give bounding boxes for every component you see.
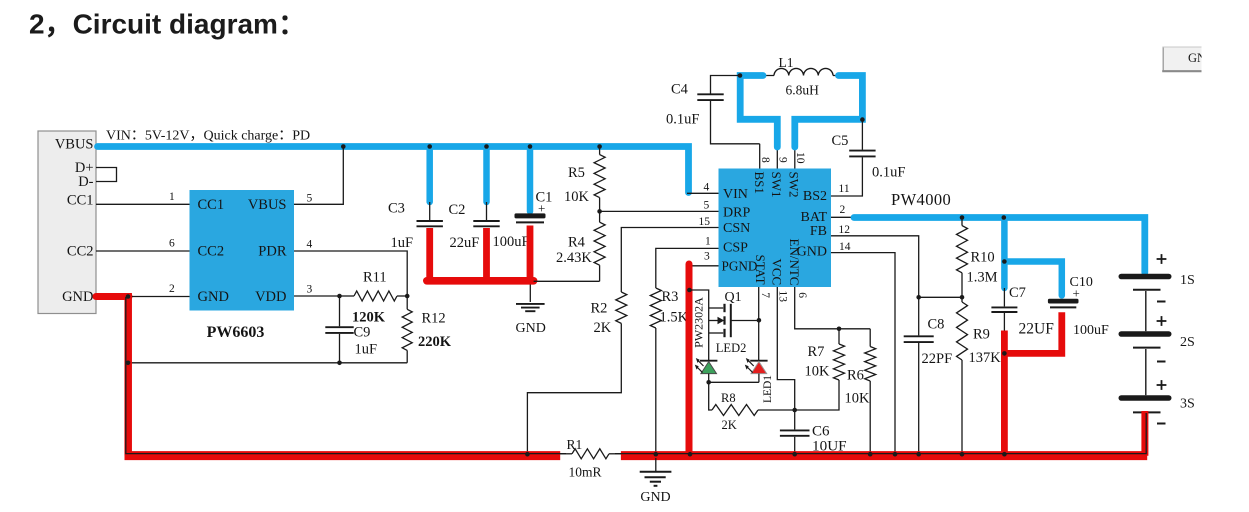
pin number 3: [704, 251, 710, 263]
svg-text:5: 5: [307, 192, 313, 204]
IC U1 PW4000: [719, 169, 832, 288]
junction C7/C10 blue: [1002, 259, 1007, 264]
wire red C7 bottom to bus: [1001, 331, 1008, 456]
GND bus red left vertical: [124, 293, 132, 456]
wire STAT pin 7 down to LED1: [758, 287, 760, 361]
svg-text:14: 14: [839, 241, 851, 253]
resistor R4 2.43K: [556, 211, 605, 281]
svg-text:1S: 1S: [1180, 273, 1195, 288]
pin number 13 vertical: [776, 291, 788, 303]
GND wire black overlay left: [126, 297, 566, 454]
junction R11/R12/PDR node: [405, 294, 410, 299]
svg-text:EN/NTC: EN/NTC: [787, 239, 802, 286]
junction C7 red on bus: [1002, 452, 1007, 457]
svg-text:DRP: DRP: [723, 205, 750, 220]
wire FB pin 12 to divider: [831, 236, 919, 297]
wire 1S to 2S: [1145, 291, 1147, 331]
wire red below C2: [483, 228, 490, 278]
junction R2 on bus: [525, 452, 530, 457]
svg-text:CC1: CC1: [198, 197, 225, 213]
resistor R7 10K: [795, 329, 845, 410]
IC U2 PW6603: [190, 190, 295, 311]
wire DRP pin 5: [600, 210, 719, 212]
junction C8 on bus: [916, 452, 921, 457]
label LED1 vertical: [762, 375, 774, 403]
svg-text:2: 2: [840, 204, 846, 216]
svg-text:2K: 2K: [594, 320, 612, 336]
svg-text:2S: 2S: [1180, 335, 1195, 350]
svg-text:VIN：5V-12V，Quick charge：PD: VIN：5V-12V，Quick charge：PD: [106, 129, 310, 144]
label LED2: [716, 341, 747, 355]
svg-text:10mR: 10mR: [569, 465, 602, 480]
svg-text:PW2302A: PW2302A: [692, 297, 706, 348]
capacitor C9 1uF: [325, 296, 377, 363]
resistor R6 10K: [845, 329, 876, 454]
pin stubs top BS1/SW1/SW2: [759, 144, 761, 169]
junction FB node: [960, 295, 965, 300]
pin number 2: [840, 204, 846, 216]
pin number 5: [307, 192, 313, 204]
svg-text:VBUS: VBUS: [55, 137, 94, 153]
junction C7 on BAT rail: [1002, 215, 1007, 220]
pin number 10 vertical: [794, 152, 806, 164]
junction R10 on BAT rail: [960, 215, 965, 220]
wire red C7 to C10 bottom: [1004, 312, 1061, 353]
svg-text:BS1: BS1: [752, 172, 767, 194]
capacitor C10 100uF polarized: [1048, 275, 1109, 338]
svg-text:SW1: SW1: [769, 172, 784, 198]
svg-text:6: 6: [169, 238, 175, 250]
svg-text:R4: R4: [568, 235, 586, 251]
resistor R8 2K: [709, 382, 795, 432]
junction LED2/R8: [706, 380, 711, 385]
svg-text:137K: 137K: [969, 350, 1002, 366]
svg-text:12: 12: [839, 224, 851, 236]
capacitor C2 22uF: [449, 149, 500, 251]
svg-text:100uF: 100uF: [1073, 323, 1109, 338]
transistor Q1 PW2302A: [709, 290, 759, 337]
wire PW6603 pin 5 VBUS up to rail: [294, 147, 343, 205]
svg-text:4: 4: [307, 239, 313, 251]
junction C5 tap on blue: [860, 117, 865, 122]
battery cell 1S: [1119, 254, 1195, 301]
svg-text:VBUS: VBUS: [248, 197, 287, 213]
capacitor C6 10UF: [780, 410, 847, 455]
svg-text:7: 7: [759, 292, 771, 298]
svg-text:R12: R12: [422, 311, 446, 327]
pin number 14: [839, 241, 851, 253]
svg-text:1.5K: 1.5K: [660, 310, 689, 326]
cropped tooltip box top-right with GND text: [1162, 47, 1215, 72]
svg-text:CC2: CC2: [198, 244, 225, 260]
capacitor C1 100uF polarized: [493, 149, 553, 250]
pin number 2: [169, 283, 175, 295]
junction VBUS/pin5: [341, 144, 346, 149]
svg-text:8: 8: [759, 157, 771, 163]
junction DRP/R5/R4: [597, 209, 602, 214]
wire blue to C10: [1004, 262, 1061, 296]
wire GND black to PW6603 pin 2: [127, 296, 190, 298]
svg-text:PDR: PDR: [258, 244, 287, 260]
junction PGND on bus: [688, 452, 693, 457]
svg-text:1: 1: [169, 191, 175, 203]
svg-text:2K: 2K: [722, 418, 737, 432]
wire FB node across: [919, 296, 962, 298]
svg-text:STAT: STAT: [753, 255, 768, 285]
wire CSN pin 15 to R2: [621, 228, 718, 293]
svg-text:VDD: VDD: [255, 289, 286, 305]
svg-text:0.1uF: 0.1uF: [666, 112, 699, 128]
svg-text:CSP: CSP: [723, 241, 748, 256]
battery cell 3S: [1119, 380, 1195, 423]
pin number 6: [169, 238, 175, 250]
junction PGND/Q1: [687, 288, 692, 293]
capacitor C3 1uF: [388, 149, 443, 251]
wire BAT pin 2 stub: [831, 216, 856, 218]
svg-text:6: 6: [796, 292, 808, 298]
wire R2 bottom to GND bus: [527, 323, 621, 453]
svg-text:100uF: 100uF: [493, 234, 530, 250]
svg-text:R3: R3: [662, 289, 679, 305]
wire CSP pin 1 to R3: [656, 248, 719, 288]
GND bus red bottom right segment: [621, 451, 1147, 460]
wire bottom node C9/R12 to GND net: [128, 362, 407, 364]
svg-text:SW2: SW2: [787, 172, 802, 198]
pin number 4: [307, 239, 313, 251]
svg-text:CSN: CSN: [723, 221, 750, 236]
svg-text:11: 11: [839, 183, 850, 195]
pin number 8 vertical: [759, 157, 771, 163]
pin number 7 vertical: [759, 292, 771, 298]
svg-text:GND: GND: [1188, 51, 1215, 65]
svg-text:Q1: Q1: [725, 290, 742, 305]
svg-text:R6: R6: [847, 368, 864, 384]
resistor R5 10K: [564, 147, 605, 212]
junction GND symbol on bus: [654, 452, 659, 457]
svg-text:C7: C7: [1009, 285, 1026, 301]
pin number 5: [704, 200, 710, 212]
junction red C7/C10: [1002, 351, 1007, 356]
svg-text:120K: 120K: [352, 310, 386, 326]
GND bus red bottom left segment: [125, 451, 561, 460]
note label VIN 5V-12V quick charge PD: [106, 129, 310, 144]
svg-text:PW4000: PW4000: [891, 190, 951, 209]
svg-text:R1: R1: [567, 437, 583, 452]
LED1 red: [745, 358, 768, 382]
svg-text:VCC: VCC: [770, 259, 785, 286]
wire PGND red down to bus: [686, 264, 693, 456]
pin number 6 vertical: [796, 292, 808, 298]
pin number 3: [307, 284, 313, 296]
junction VDD node: [337, 294, 342, 299]
svg-text:+: +: [538, 201, 545, 216]
junction C8 top: [916, 295, 921, 300]
svg-text:C3: C3: [388, 201, 405, 217]
junction R7 top: [837, 327, 842, 332]
wire blue SW2 to L1 right: [795, 76, 863, 148]
svg-text:5: 5: [704, 200, 710, 212]
svg-text:9: 9: [777, 157, 789, 163]
wire GND from connector (red): [96, 293, 129, 300]
pin number 1: [705, 236, 711, 248]
svg-text:2，Circuit diagram：: 2，Circuit diagram：: [29, 9, 306, 40]
svg-text:CC2: CC2: [67, 244, 94, 260]
svg-text:C8: C8: [928, 317, 945, 333]
capacitor C7 22UF: [991, 285, 1054, 338]
svg-text:1uF: 1uF: [391, 235, 414, 251]
capacitor C8 22PF: [904, 297, 952, 454]
wire D+/D- loop stub: [96, 168, 117, 182]
LED2 green: [695, 358, 718, 382]
svg-text:GND: GND: [198, 289, 229, 305]
junction pin14 on bus: [893, 452, 898, 457]
capacitor C5 0.1uF: [831, 120, 905, 196]
pin number 9 vertical: [777, 157, 789, 163]
pin number 4: [704, 181, 710, 193]
svg-text:13: 13: [776, 291, 788, 303]
svg-text:R11: R11: [363, 270, 387, 286]
svg-text:R9: R9: [973, 327, 990, 343]
wire PW6603 pin 3 VDD: [294, 295, 340, 297]
wire GND pin 14 down to bus: [831, 253, 895, 454]
label PW2302A vertical: [692, 297, 706, 348]
wire R3 bottom to GND bus: [655, 328, 657, 454]
junction C9 bottom: [337, 361, 342, 366]
svg-text:22uF: 22uF: [450, 235, 480, 251]
svg-text:15: 15: [699, 216, 711, 228]
svg-text:BS2: BS2: [803, 189, 827, 204]
svg-text:+: +: [1073, 286, 1080, 301]
svg-text:2: 2: [169, 283, 175, 295]
wire 2S to 3S: [1145, 349, 1147, 395]
USB input connector J1: [38, 131, 96, 314]
inductor L1 6.8uH: [740, 55, 861, 98]
wire red below C3: [426, 228, 433, 278]
svg-text:GND: GND: [516, 321, 546, 336]
svg-text:C9: C9: [354, 325, 371, 341]
wire blue C7 branch: [1001, 219, 1008, 288]
junction C3 on rail: [427, 144, 432, 149]
svg-text:LED1: LED1: [762, 375, 774, 403]
ground symbol below C1: [516, 285, 546, 336]
resistor R12 220K: [402, 296, 452, 363]
svg-text:R10: R10: [971, 250, 995, 266]
wire blue SW1 to L1 left: [740, 76, 777, 148]
svg-text:BAT: BAT: [801, 210, 828, 225]
capacitor C4 0.1uF: [666, 76, 760, 144]
red ground bar under C1-C3: [427, 277, 534, 285]
svg-text:R7: R7: [808, 344, 825, 360]
svg-text:1uF: 1uF: [355, 342, 378, 358]
resistor R1 10mR: [560, 437, 621, 480]
svg-text:FB: FB: [810, 224, 827, 239]
label PW6603: [207, 324, 265, 341]
BAT rail (blue) to battery: [854, 218, 1145, 273]
junction R9 on bus: [960, 452, 965, 457]
svg-text:10K: 10K: [845, 391, 871, 407]
svg-text:C5: C5: [832, 133, 849, 149]
wire CC2 to PW6603 pin 6: [96, 250, 190, 252]
wire red below C1: [527, 226, 534, 279]
pin number 12: [839, 224, 851, 236]
svg-text:10K: 10K: [564, 189, 590, 205]
wire EN/NTC pin 6 to R7/R6: [795, 287, 871, 329]
svg-text:3: 3: [704, 251, 710, 263]
svg-text:4: 4: [704, 181, 710, 193]
junction gate/STAT: [757, 318, 762, 323]
ground symbol main GND: [640, 458, 672, 505]
pin number 1: [169, 191, 175, 203]
svg-text:0.1uF: 0.1uF: [872, 165, 905, 181]
svg-text:C2: C2: [449, 202, 466, 218]
junction C6 on bus: [792, 452, 797, 457]
wire PGND pin 3 stub: [689, 265, 719, 267]
junction R5 on rail: [597, 144, 602, 149]
resistor R10 1.3M: [957, 219, 998, 297]
svg-text:GND: GND: [640, 490, 670, 505]
wire Q1 source rail: [689, 290, 708, 361]
svg-text:1: 1: [705, 236, 711, 248]
svg-text:3: 3: [307, 284, 313, 296]
resistor R3 1.5K: [650, 288, 688, 328]
svg-text:R5: R5: [568, 165, 585, 181]
svg-text:C4: C4: [671, 82, 689, 98]
wire LED2/LED1 cathode join: [709, 381, 759, 383]
svg-text:6.8uH: 6.8uH: [786, 83, 820, 98]
svg-text:2.43K: 2.43K: [556, 250, 592, 266]
svg-text:L1: L1: [779, 55, 794, 70]
resistor R11 120K: [340, 270, 408, 326]
wire VIN pin 4 stub: [687, 192, 719, 194]
junction C6 node: [792, 408, 797, 413]
wire CC1 to PW6603 pin 1: [96, 203, 190, 205]
wire ground bar to R4 bottom: [534, 280, 600, 282]
svg-text:22PF: 22PF: [922, 351, 953, 367]
svg-text:220K: 220K: [418, 334, 452, 350]
svg-text:1.3M: 1.3M: [967, 270, 998, 286]
resistor R2 2K: [591, 292, 627, 336]
svg-text:PGND: PGND: [722, 258, 758, 273]
label PW4000: [891, 190, 951, 209]
pin number 11: [839, 183, 850, 195]
svg-text:R8: R8: [721, 391, 736, 405]
svg-text:R2: R2: [591, 301, 608, 317]
battery cell 2S: [1119, 316, 1195, 361]
svg-text:GND: GND: [62, 289, 93, 305]
junction on GND column: [126, 361, 131, 366]
svg-text:CC1: CC1: [67, 193, 94, 209]
junction at connector GND: [126, 294, 131, 299]
svg-text:VIN: VIN: [723, 187, 748, 202]
svg-text:3S: 3S: [1180, 397, 1195, 412]
VBUS rail (blue) from connector to VIN: [98, 147, 689, 193]
svg-text:10K: 10K: [805, 364, 831, 380]
svg-text:D-: D-: [78, 174, 93, 190]
junction C1 on rail: [528, 144, 533, 149]
svg-text:LED2: LED2: [716, 341, 747, 355]
junction L1/C4: [738, 73, 743, 78]
GND wire black overlay right: [615, 413, 1146, 454]
svg-text:PW6603: PW6603: [207, 324, 265, 341]
svg-text:10: 10: [794, 152, 806, 164]
wire VCC pin 13 jog to C6 node: [777, 287, 794, 410]
svg-text:22UF: 22UF: [1019, 321, 1055, 338]
page title: [29, 9, 306, 40]
junction R6 on bus: [868, 452, 873, 457]
GND bus red battery vertical: [1141, 411, 1148, 456]
pin number 15: [699, 216, 711, 228]
wire PW6603 pin 4 PDR down to R12: [294, 251, 407, 296]
resistor R9 137K: [957, 297, 1002, 454]
junction C2 on rail: [484, 144, 489, 149]
